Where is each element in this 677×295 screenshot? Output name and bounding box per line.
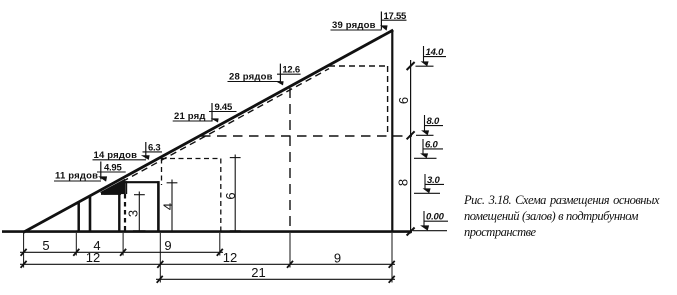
svg-text:8: 8 [396, 179, 411, 186]
svg-text:12: 12 [223, 250, 237, 265]
label 28 rows [228, 72, 281, 83]
caption [464, 192, 666, 240]
dashed ceiling 8.0 level [201, 135, 412, 137]
room A left wall [89, 196, 92, 232]
elevation mark 9.45 [209, 102, 237, 122]
label 11 rows [54, 170, 101, 181]
dashed line under slope [103, 69, 329, 193]
svg-text:9: 9 [164, 238, 171, 253]
elevation mark 14.0 [416, 46, 447, 66]
elevation mark 4.95 [97, 162, 126, 182]
tribune right edge [391, 30, 393, 232]
svg-text:9: 9 [334, 250, 341, 265]
corridor wall [77, 202, 80, 232]
dashed right edge of upper room [387, 66, 389, 134]
label 14 rows [93, 150, 147, 161]
svg-text:39 рядов: 39 рядов [332, 20, 376, 31]
wedge where room tops meet slope [100, 179, 125, 195]
svg-text:9.45: 9.45 [215, 102, 233, 113]
label 21 row [173, 111, 212, 122]
svg-text:12: 12 [86, 250, 100, 265]
room B right wall [157, 181, 160, 231]
svg-text:6: 6 [396, 97, 411, 104]
dashed room 6.0: left edge [161, 159, 163, 186]
extension lines [24, 233, 392, 283]
right column dimension line [407, 60, 415, 236]
svg-text:5: 5 [42, 238, 49, 253]
svg-text:11 рядов: 11 рядов [55, 170, 98, 181]
room B left wall dashed [124, 194, 126, 231]
svg-text:14.0: 14.0 [426, 47, 445, 58]
elevation mark 17.55 [380, 11, 407, 30]
label 39 rows [331, 20, 382, 31]
room A top [101, 193, 121, 195]
dashed room 6.0: top [162, 158, 221, 160]
svg-text:8.0: 8.0 [427, 116, 441, 127]
elevation mark 3.0 [414, 174, 444, 193]
ground line [2, 230, 412, 233]
svg-text:4.95: 4.95 [104, 162, 122, 173]
room B top [125, 181, 160, 183]
vertical dim 4 [167, 180, 178, 232]
svg-text:12.6: 12.6 [282, 65, 300, 76]
svg-text:0.00: 0.00 [426, 212, 445, 223]
dashed ceiling 14.0 level [329, 65, 388, 67]
svg-text:3.0: 3.0 [427, 175, 441, 186]
room A right wall [118, 193, 120, 232]
dim row 2 [20, 261, 395, 268]
svg-text:17.55: 17.55 [384, 11, 407, 22]
dashed partition wall x=290 [289, 88, 291, 231]
hypotenuse (tribune slope) [23, 30, 393, 233]
room B left wall stub [125, 181, 127, 194]
svg-text:6.0: 6.0 [425, 139, 439, 150]
svg-text:21: 21 [251, 265, 265, 280]
elevation mark 0.00 [413, 211, 448, 231]
elevation mark 12.6 [276, 64, 301, 86]
dashed room 6.0: right edge [220, 159, 222, 232]
elevation mark 6.3 [141, 142, 162, 160]
svg-text:6: 6 [223, 192, 238, 199]
elevation mark 6.0 [414, 139, 443, 158]
svg-text:4: 4 [161, 203, 176, 210]
vertical dim 3 [133, 192, 146, 232]
elevation mark 8.0 [416, 115, 443, 135]
dim row 3 [156, 276, 395, 283]
vertical dim 6 [230, 155, 241, 232]
svg-text:6.3: 6.3 [148, 142, 160, 153]
dim row 1 [20, 249, 223, 256]
svg-text:3: 3 [126, 210, 141, 217]
